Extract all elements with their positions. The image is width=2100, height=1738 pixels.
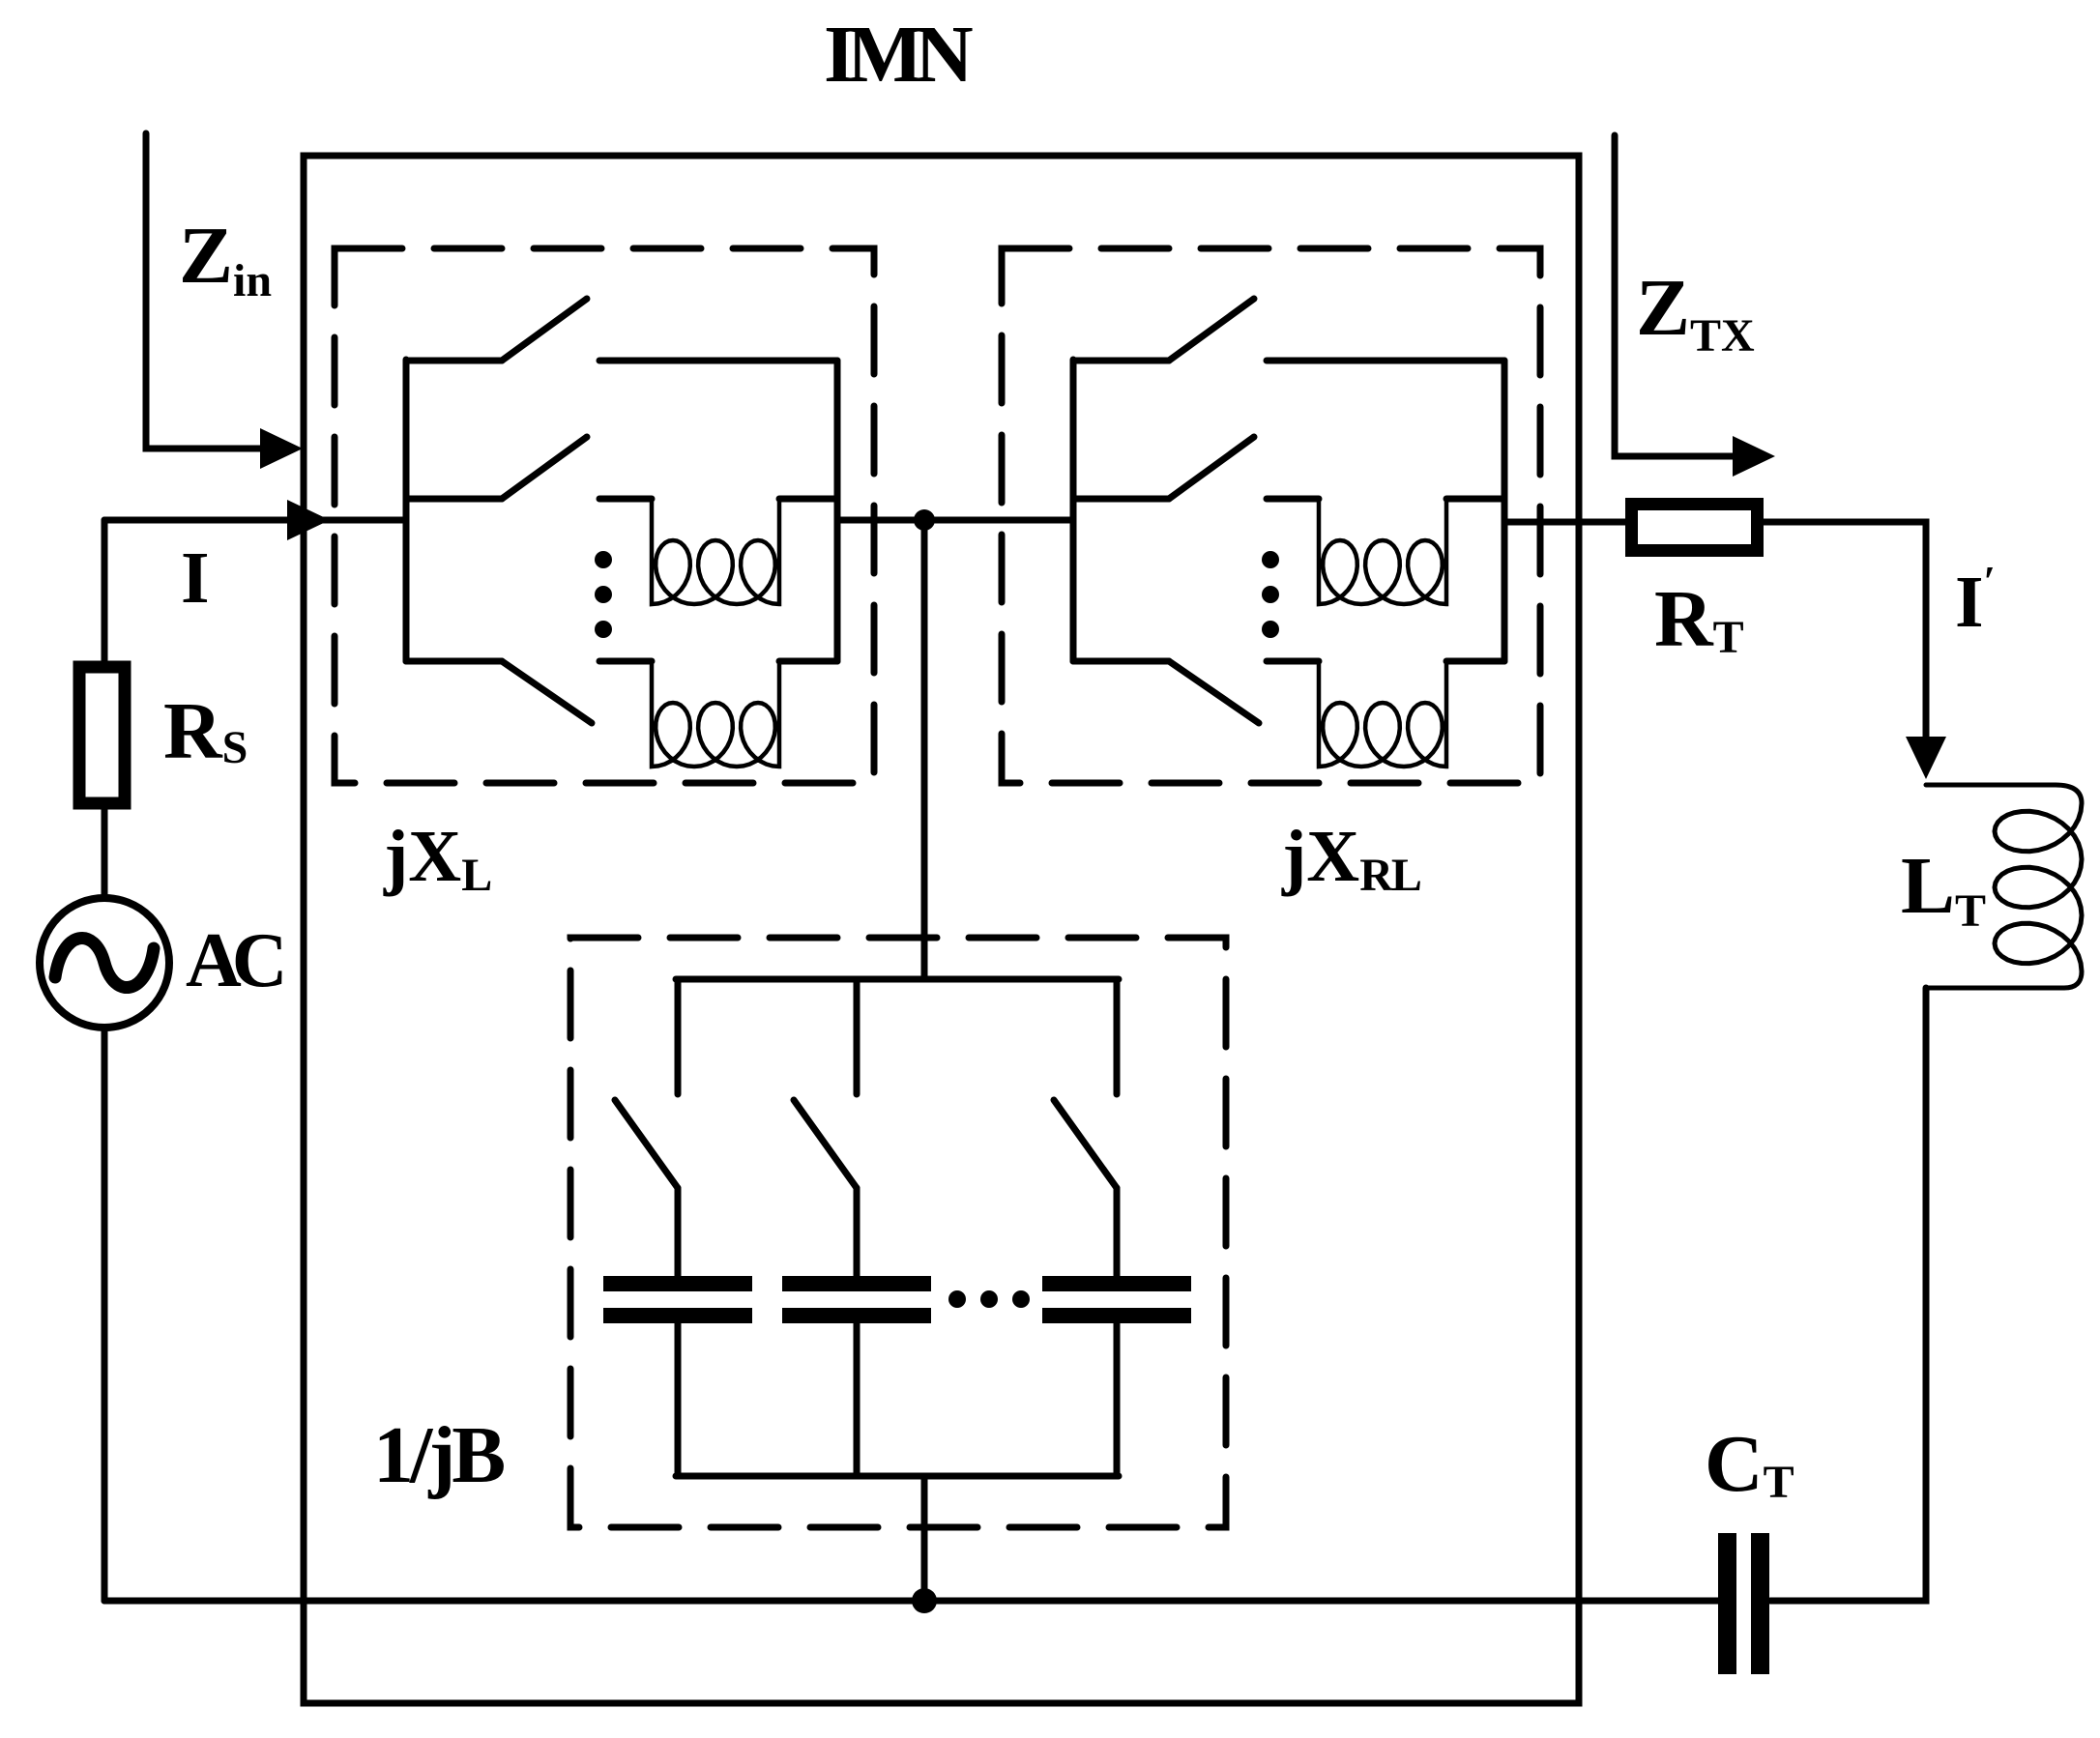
AC source (40, 898, 169, 1028)
switch blade (794, 1100, 857, 1188)
wire feed to 1/jB (921, 520, 928, 979)
wire jXL out to jXRL in (837, 517, 1073, 524)
dots more branches L (595, 551, 612, 638)
node Zin arrow (146, 133, 267, 449)
jXL dashed box (335, 248, 874, 783)
switch cap-branch at x=886 stub (854, 979, 860, 1094)
wire LT down (1770, 988, 1926, 1601)
inductor L3 (652, 661, 779, 767)
IMN box (304, 156, 1579, 1703)
switch S1 RL top branch (1073, 299, 1254, 361)
switch blade (1054, 1100, 1117, 1188)
switch blade (615, 1100, 678, 1188)
switch S2 L middle branch (406, 437, 587, 499)
node junction to 1/jB (914, 509, 935, 531)
svg-text:1/jB: 1/jB (373, 1410, 504, 1500)
jXRL network: left vertical (1070, 360, 1077, 661)
switch S1 L top branch (406, 299, 587, 361)
switch S2 RL middle branch (1073, 437, 1254, 499)
wire 1/jB to bottom (921, 1476, 928, 1601)
resistor RT (1632, 505, 1758, 551)
switch cap-branch at x=701 stub (675, 979, 682, 1094)
switch S3 L bottom branch (406, 661, 592, 723)
dots more capacitors (948, 1290, 1030, 1308)
svg-text:I: I (181, 537, 210, 619)
dots more branches RL (1262, 551, 1279, 638)
capacitor plates (782, 1276, 931, 1323)
wire left rail (102, 520, 108, 1601)
jXL right vertical (834, 361, 841, 661)
1/jB dashed box (570, 938, 1226, 1527)
node junction bottom (912, 1588, 937, 1613)
capacitor lead (1114, 1188, 1121, 1476)
capacitor lead (854, 1188, 860, 1476)
svg-text:IMN: IMN (824, 10, 973, 100)
wire RT to LT (1764, 522, 1926, 739)
inductor RL3 (1319, 661, 1446, 767)
jXRL right vertical (1502, 361, 1508, 661)
jXRL dashed box (1002, 248, 1540, 783)
capacitor plates (603, 1276, 752, 1323)
inductor L2 (652, 499, 779, 604)
switch cap-branch at x=1155 stub (1114, 979, 1121, 1094)
1/jB bottom bus (676, 1473, 1119, 1480)
inductor LT (1926, 785, 2082, 988)
svg-text:AC: AC (186, 918, 282, 1003)
capacitor CT (1718, 1533, 1769, 1674)
capacitor plates (1042, 1276, 1191, 1323)
node ZTX arrow (1615, 135, 1739, 456)
jXL network: left vertical (403, 360, 410, 661)
switch S3 RL bottom branch (1073, 661, 1259, 723)
wire jXRL out (1504, 519, 1625, 526)
capacitor lead (675, 1188, 682, 1476)
resistor RS (79, 667, 125, 803)
wire main input (104, 517, 406, 524)
1/jB top bus (676, 976, 1119, 983)
wire bottom return (104, 1598, 1718, 1605)
inductor RL2 (1319, 499, 1446, 604)
